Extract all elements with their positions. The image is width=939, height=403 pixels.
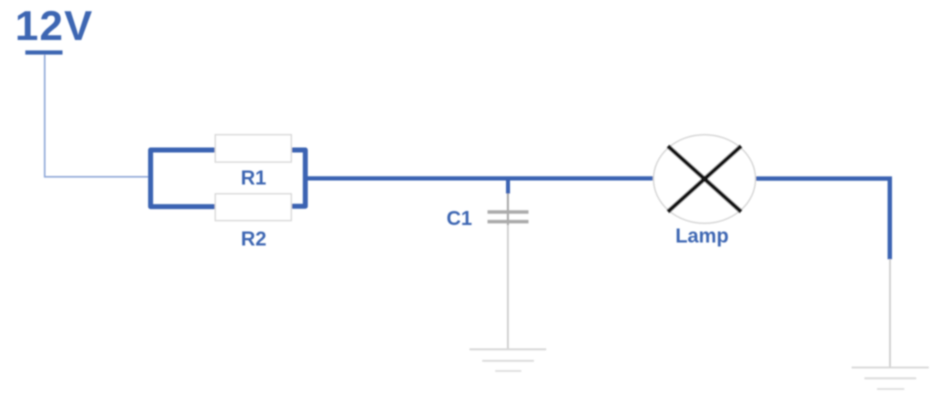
resistor R2 <box>215 194 291 221</box>
ground (right) <box>852 368 929 390</box>
wire left bracket of parallel resistors <box>151 150 218 207</box>
wire right bracket of parallel resistors <box>292 150 306 206</box>
lamp LP1 <box>654 135 756 224</box>
svg-text:R1: R1 <box>241 168 267 190</box>
wire lamp to right and down <box>756 179 890 260</box>
resistor R1 <box>215 135 291 162</box>
svg-text:Lamp: Lamp <box>675 226 728 248</box>
power symbol 12V bar <box>25 50 62 54</box>
wire from 12V supply down and right to node A <box>45 55 149 177</box>
wire main horizontal from resistors to lamp <box>305 176 654 180</box>
svg-text:C1: C1 <box>447 208 473 230</box>
svg-text:R2: R2 <box>241 229 267 251</box>
ground (below C1) <box>470 349 547 371</box>
wire stub node to capacitor C1 <box>506 178 510 193</box>
wire capacitor top lead <box>507 194 509 226</box>
wire right vertical lead to ground <box>889 259 891 367</box>
wire capacitor bottom lead to ground <box>507 225 509 349</box>
svg-text:12V: 12V <box>15 2 93 49</box>
capacitor C1 <box>488 212 529 222</box>
